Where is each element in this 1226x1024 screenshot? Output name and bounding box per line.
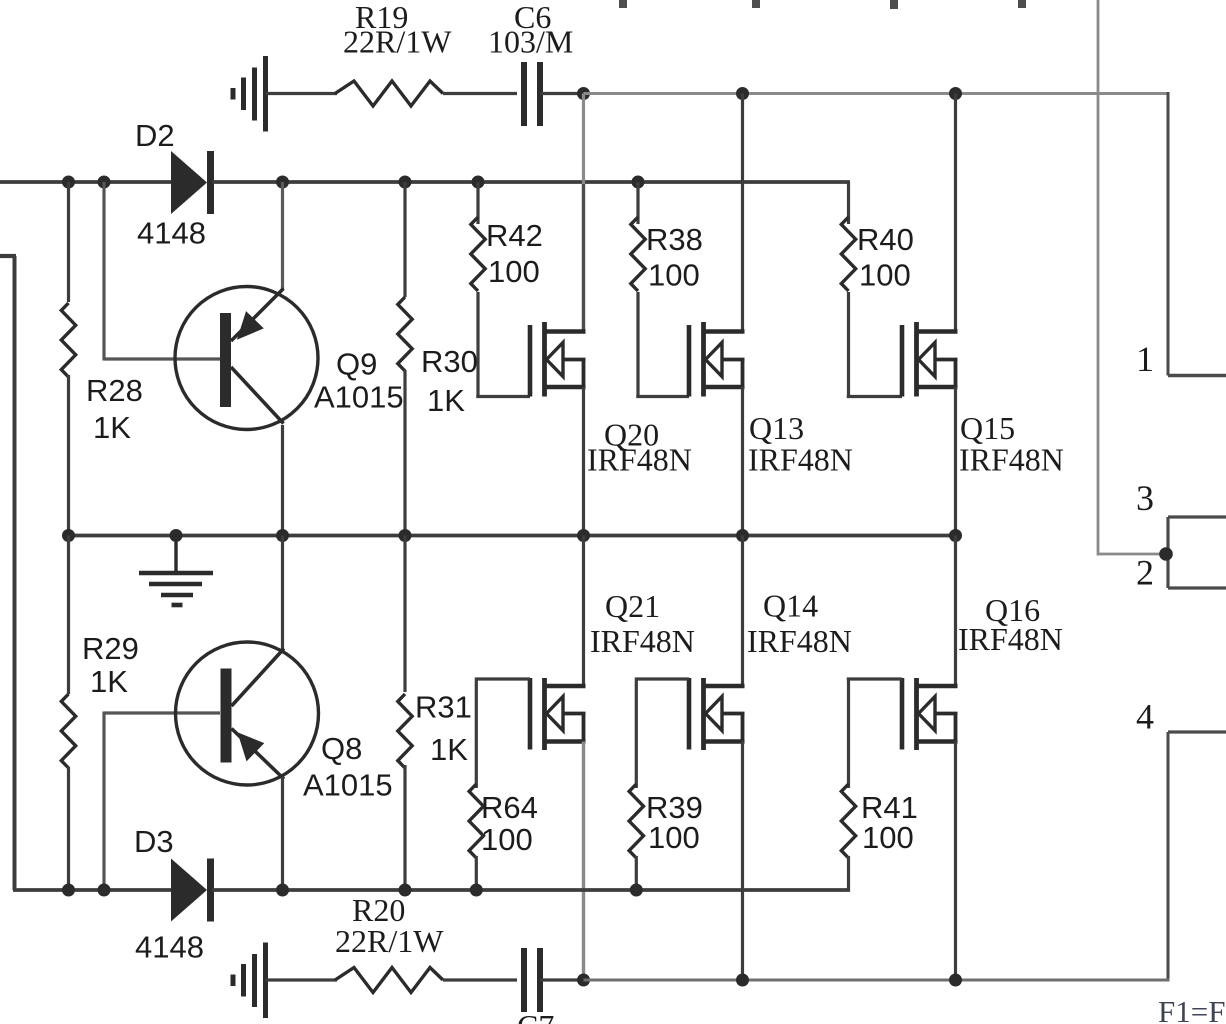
resistor R39 xyxy=(629,784,643,858)
label R64 xyxy=(481,790,538,825)
label terminal 3 xyxy=(1136,478,1154,518)
label C6 xyxy=(514,0,551,35)
capacitor C7 xyxy=(524,948,540,1012)
svg-text:22R/1W: 22R/1W xyxy=(343,24,452,60)
label C6 value 103/M xyxy=(488,24,573,60)
label Q14 type IRF48N xyxy=(747,623,852,659)
svg-text:IRF48N: IRF48N xyxy=(958,621,1063,657)
label R30 value 1K xyxy=(427,383,465,418)
wire bottom bus (gray) to right corner xyxy=(584,979,1170,982)
label R19 xyxy=(355,0,408,35)
wire Q13 gate lead xyxy=(636,395,689,398)
wire R19 to C6 xyxy=(443,92,517,95)
wire Q15 drain up xyxy=(954,94,957,332)
wire Q21 drain from mid bus xyxy=(582,536,585,687)
wire base loop vertical (Q9) xyxy=(102,182,105,361)
node mid bus Q20/Q21 xyxy=(577,529,590,542)
wire top bus corner down to terminal 1 xyxy=(1167,92,1170,376)
wire Q21 gate down to R64 xyxy=(475,678,478,789)
wire Q14 gate down to R39 xyxy=(635,678,638,789)
resistor R64 xyxy=(469,784,483,858)
node at R28 column xyxy=(62,176,75,189)
label R38 value 100 xyxy=(648,258,700,293)
wire left vertical down xyxy=(13,256,17,890)
wire terminal 3 lead xyxy=(1168,515,1226,518)
svg-text:R28: R28 xyxy=(86,373,143,408)
svg-text:100: 100 xyxy=(488,254,540,289)
resistor R40 xyxy=(841,217,855,291)
svg-text:IRF48N: IRF48N xyxy=(748,442,853,478)
diode D3 xyxy=(171,859,214,922)
node mid bus Q9/Q8 xyxy=(276,529,289,542)
wire R29 to bottom bus xyxy=(67,767,70,890)
wire ground to R19 xyxy=(266,92,338,95)
label D2 xyxy=(135,118,175,153)
wire top bus (gray) to right corner xyxy=(584,92,1170,95)
svg-text:100: 100 xyxy=(481,822,533,857)
svg-text:IRF48N: IRF48N xyxy=(959,442,1064,478)
svg-text:3: 3 xyxy=(1136,478,1154,518)
label Q9 type A1015 xyxy=(314,380,404,415)
label Q8 xyxy=(321,731,362,766)
label Q16 type IRF48N xyxy=(958,621,1063,657)
node V+ bus junction xyxy=(577,87,590,100)
resistor R31 xyxy=(398,694,412,768)
label R29 value 1K xyxy=(90,664,128,699)
label terminal 2 xyxy=(1136,553,1154,593)
wire R40 to Q15 gate corner xyxy=(847,292,850,398)
label R42 xyxy=(486,218,543,253)
svg-text:R38: R38 xyxy=(646,222,703,257)
node at Q9 emitter column xyxy=(276,176,289,189)
label R39 value 100 xyxy=(648,820,700,855)
wire Q16 gate lead xyxy=(847,677,902,680)
label R40 value 100 xyxy=(859,258,911,293)
label R30 xyxy=(421,344,478,379)
label Q13 xyxy=(749,410,804,446)
label C7 (clipped at edge) xyxy=(517,1008,554,1024)
wire terminal 3-2 vertical xyxy=(1166,517,1169,588)
label F1 note (clipped) xyxy=(1158,994,1225,1024)
wire terminal 1 lead xyxy=(1168,374,1226,377)
label Q20 xyxy=(604,417,659,453)
wire terminal 4 lead xyxy=(1168,730,1226,733)
label Q16 xyxy=(985,592,1040,628)
wire Q9 emitter up to gate bus xyxy=(281,182,284,290)
resistor R29 xyxy=(61,694,75,768)
svg-text:1: 1 xyxy=(1136,339,1154,379)
resistor R20 xyxy=(335,968,443,993)
resistor R41 xyxy=(841,784,855,858)
transistor Q20 IRF48N xyxy=(530,322,586,397)
svg-text:C7: C7 xyxy=(517,1008,554,1024)
svg-text:Q8: Q8 xyxy=(321,731,362,766)
svg-text:A1015: A1015 xyxy=(314,380,404,415)
svg-text:F1=F: F1=F xyxy=(1158,994,1225,1024)
label terminal 1 xyxy=(1136,339,1154,379)
wire Q13 drain up xyxy=(741,94,744,332)
svg-text:Q21: Q21 xyxy=(605,588,660,624)
wire mid bus to R29 xyxy=(67,536,70,695)
svg-text:1K: 1K xyxy=(427,383,465,418)
wire terminal 4 vertical to bottom bus xyxy=(1167,732,1170,982)
node at R38 column xyxy=(632,176,645,189)
wire Q9 base horizontal xyxy=(104,357,220,360)
svg-text:4148: 4148 xyxy=(137,216,206,251)
label R40 xyxy=(857,222,914,257)
node mid bus R28 xyxy=(62,529,75,542)
wire C6 to node xyxy=(540,92,584,95)
label R38 xyxy=(646,222,703,257)
label R29 xyxy=(82,631,139,666)
svg-text:IRF48N: IRF48N xyxy=(747,623,852,659)
svg-text:100: 100 xyxy=(859,258,911,293)
wire R31 to bottom bus xyxy=(403,765,406,890)
node mid bus Q15/Q16 xyxy=(949,529,962,542)
resistor R42 xyxy=(471,217,485,291)
node bottom bus R29 xyxy=(62,884,75,897)
svg-text:103/M: 103/M xyxy=(488,24,573,60)
node mid bus ground xyxy=(170,529,183,542)
ground symbol (middle, earth) xyxy=(139,536,213,606)
svg-text:2: 2 xyxy=(1136,553,1154,593)
svg-text:A1015: A1015 xyxy=(303,768,393,803)
svg-text:100: 100 xyxy=(648,820,700,855)
resistor R19 xyxy=(335,81,443,106)
wire Q15 gate lead xyxy=(847,395,902,398)
wire Q9 collector down to mid bus xyxy=(281,425,284,536)
wire Q8 collector up to mid bus xyxy=(281,536,284,651)
node bottom bus R31 xyxy=(399,884,412,897)
wire terminal 2 lead xyxy=(1168,586,1226,589)
svg-text:4: 4 xyxy=(1136,697,1154,737)
wire Q16 drain from mid bus xyxy=(954,536,957,687)
label Q15 type IRF48N xyxy=(959,442,1064,478)
svg-text:D2: D2 xyxy=(135,118,175,153)
svg-text:22R/1W: 22R/1W xyxy=(335,923,444,959)
label R39 xyxy=(646,790,703,825)
label Q9 xyxy=(336,347,377,382)
label D3 xyxy=(134,824,174,859)
svg-text:1K: 1K xyxy=(430,732,468,767)
ground symbol (bottom, V- rail decoupling) xyxy=(233,943,266,1019)
label D3 value 4148 xyxy=(135,930,204,965)
svg-text:Q9: Q9 xyxy=(336,347,377,382)
node at R30 column xyxy=(399,176,412,189)
svg-text:R40: R40 xyxy=(857,222,914,257)
transistor Q15 IRF48N xyxy=(902,322,958,397)
wire Q13 source down to mid bus xyxy=(741,387,744,536)
ground symbol (top, V+ rail decoupling) xyxy=(233,56,266,132)
node bottom bus at Q16 column xyxy=(949,974,962,987)
svg-text:R42: R42 xyxy=(486,218,543,253)
wire corner down to R40 xyxy=(847,182,850,224)
transistor Q14 IRF48N xyxy=(689,678,745,750)
wire gray vertical feeder xyxy=(1097,0,1100,556)
transistor Q13 IRF48N xyxy=(689,322,745,397)
diode D2 xyxy=(171,151,214,214)
label R41 xyxy=(861,790,918,825)
tick mark top edge b xyxy=(752,0,760,8)
wire Q14 source down xyxy=(741,742,744,981)
label R28 xyxy=(86,373,143,408)
label R64 value 100 xyxy=(481,822,533,857)
node terminal 2/3 junction xyxy=(1159,547,1173,561)
tick mark top edge c xyxy=(890,0,898,9)
svg-text:100: 100 xyxy=(648,258,700,293)
node at R42 column xyxy=(472,176,485,189)
label terminal 4 xyxy=(1136,697,1154,737)
wire R64 to bottom bus xyxy=(475,856,478,890)
wire R41 corner to bottom bus xyxy=(847,856,850,892)
svg-text:R29: R29 xyxy=(82,631,139,666)
node at base-loop column xyxy=(98,176,111,189)
wire node to R30 xyxy=(403,182,406,297)
node bottom bus R39 xyxy=(630,884,643,897)
label Q21 type IRF48N xyxy=(590,623,695,659)
svg-text:1K: 1K xyxy=(93,410,131,445)
label Q8 type A1015 xyxy=(303,768,393,803)
label Q21 xyxy=(605,588,660,624)
wire node to R28 xyxy=(67,182,70,302)
wire ground to R20 xyxy=(266,978,338,981)
wire node to R42 xyxy=(476,182,479,224)
node mid bus R30/R31 xyxy=(399,529,412,542)
wire Q8 emitter down to bottom bus xyxy=(281,777,284,890)
svg-text:R31: R31 xyxy=(415,690,472,725)
resistor R38 xyxy=(631,217,645,291)
wire Q15 source down to mid bus xyxy=(954,387,957,536)
label Q13 type IRF48N xyxy=(748,442,853,478)
tick mark top edge a xyxy=(619,0,627,8)
label Q14 xyxy=(763,588,818,624)
resistor R30 xyxy=(398,297,412,371)
label R41 value 100 xyxy=(862,820,914,855)
wire mid bus to R31 xyxy=(403,536,406,693)
label D2 value 4148 xyxy=(137,216,206,251)
label R20 value 22R/1W xyxy=(335,923,444,959)
wire R20 to C7 xyxy=(443,978,517,981)
node bottom bus R64 xyxy=(470,884,483,897)
node bottom bus Q8 emitter xyxy=(276,884,289,897)
svg-text:IRF48N: IRF48N xyxy=(590,623,695,659)
wire Q14 gate lead xyxy=(636,677,689,680)
wire Q20 drain up (gray) xyxy=(582,94,585,332)
resistor R28 xyxy=(61,303,75,377)
wire R38 to Q13 gate corner xyxy=(636,292,639,398)
wire gate bus top, left of D2 xyxy=(0,180,173,184)
transistor Q9 A1015 xyxy=(175,287,318,430)
label Q15 xyxy=(960,410,1015,446)
label R31 value 1K xyxy=(430,732,468,767)
svg-text:4148: 4148 xyxy=(135,930,204,965)
wire C7 to node xyxy=(540,978,584,981)
wire R42 to Q20 gate corner xyxy=(476,292,479,398)
wire middle output bus xyxy=(69,534,956,538)
wire R39 to bottom bus xyxy=(635,856,638,890)
transistor Q8 A1015 xyxy=(176,642,319,785)
label R42 value 100 xyxy=(488,254,540,289)
label R19 value 22R/1W xyxy=(343,24,452,60)
wire Q8 base horizontal xyxy=(104,711,220,714)
transistor Q21 IRF48N xyxy=(530,678,586,750)
capacitor C6 xyxy=(524,62,540,126)
svg-text:1K: 1K xyxy=(90,664,128,699)
svg-text:R64: R64 xyxy=(481,790,538,825)
wire gate bus bottom, right of D3 xyxy=(212,888,850,892)
wire gate bus top, right of D2 xyxy=(212,180,850,184)
label R20 xyxy=(352,892,405,928)
svg-text:IRF48N: IRF48N xyxy=(587,442,692,478)
wire node to R38 xyxy=(636,182,639,224)
wire Q16 gate down to R41 xyxy=(847,678,850,789)
node top bus at Q13 column xyxy=(736,87,749,100)
wire left edge entry xyxy=(0,254,16,258)
wire R30 to mid bus xyxy=(403,370,406,536)
node bottom bus at Q14 column xyxy=(736,974,749,987)
wire Q20 source down to mid bus xyxy=(582,387,585,536)
wire Q14 drain from mid bus xyxy=(741,536,744,687)
svg-text:Q14: Q14 xyxy=(763,588,818,624)
node mid bus Q13/Q14 xyxy=(736,529,749,542)
wire gray feeder corner to node xyxy=(1098,553,1166,556)
wire Q21 source down (gray) xyxy=(582,742,585,981)
wire R28 to mid bus xyxy=(67,375,70,536)
wire base loop vertical (Q8) xyxy=(102,712,105,891)
svg-text:R30: R30 xyxy=(421,344,478,379)
svg-text:100: 100 xyxy=(862,820,914,855)
label R31 xyxy=(415,690,472,725)
node bottom bus base-loop xyxy=(98,884,111,897)
transistor Q16 IRF48N xyxy=(902,678,958,750)
svg-text:D3: D3 xyxy=(134,824,174,859)
label Q20 type IRF48N xyxy=(587,442,692,478)
node V- bus junction xyxy=(577,974,590,987)
wire Q20 gate lead xyxy=(476,395,530,398)
wire Q16 source down xyxy=(954,742,957,981)
node top bus at Q15 column xyxy=(949,87,962,100)
tick mark top edge d xyxy=(1018,0,1026,8)
wire gate bus bottom, left of D3 xyxy=(13,888,173,892)
label R28 value 1K xyxy=(93,410,131,445)
wire Q21 gate lead xyxy=(476,677,530,680)
